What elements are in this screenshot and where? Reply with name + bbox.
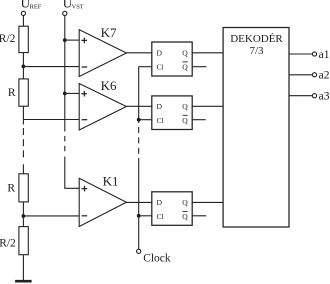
wire R/2 to R bbox=[22, 53, 24, 79]
terminal U_REF bbox=[21, 11, 25, 15]
wire clock dashed bbox=[138, 127, 140, 154]
node U_VST-K6 bbox=[63, 92, 67, 96]
svg-text:Q: Q bbox=[182, 49, 188, 58]
wire FF7 Qbar stub bbox=[192, 66, 206, 68]
decoder U1 bbox=[223, 28, 289, 228]
svg-text:D: D bbox=[157, 49, 163, 58]
node clock-FF6 bbox=[137, 118, 141, 122]
svg-text:R/2: R/2 bbox=[0, 238, 16, 250]
svg-text:K1: K1 bbox=[103, 173, 119, 188]
wire tee to K6 minus bbox=[23, 119, 79, 121]
svg-text:D: D bbox=[157, 198, 163, 207]
terminal a1 bbox=[312, 52, 316, 56]
svg-text:Q: Q bbox=[182, 102, 188, 111]
comparator K6 bbox=[79, 84, 126, 131]
terminal a2 bbox=[312, 73, 316, 77]
svg-text:K7: K7 bbox=[101, 25, 117, 40]
wire FF7 Q to decoder bbox=[192, 52, 223, 54]
svg-text:R: R bbox=[8, 87, 16, 99]
wire clock vertical upper solid bbox=[138, 67, 140, 123]
flip-flop FF1 bbox=[152, 192, 192, 226]
svg-text:DEKODÉR: DEKODÉR bbox=[230, 33, 283, 45]
wire decoder to a2 bbox=[289, 74, 312, 76]
pin minus K1 bbox=[82, 215, 88, 217]
terminal Clock bbox=[137, 249, 141, 253]
wire U_VST lower to K1 plus bbox=[65, 157, 79, 189]
wire ladder dashed bbox=[22, 128, 24, 161]
node ladder-K1 bbox=[22, 214, 26, 218]
svg-text:Q: Q bbox=[182, 63, 188, 72]
pin label Qbar FF6 bbox=[182, 115, 188, 125]
wire node to K7 plus bbox=[65, 39, 79, 41]
svg-text:D: D bbox=[157, 102, 163, 111]
resistor R upper bbox=[19, 79, 28, 106]
pin plus K1 bbox=[82, 186, 88, 192]
terminal a3 bbox=[312, 94, 316, 98]
svg-text:R: R bbox=[7, 182, 15, 194]
wire U_VST vertical solid bbox=[64, 16, 66, 127]
svg-text:a2: a2 bbox=[319, 70, 330, 82]
wire FF1 Cl to clock line bbox=[139, 215, 152, 217]
wire U_VST dashed bbox=[64, 126, 66, 153]
wire K6 out to FF6 D bbox=[126, 105, 151, 107]
svg-text:Clock: Clock bbox=[143, 253, 171, 265]
wire K1 out to FF1 D bbox=[126, 201, 151, 203]
svg-text:Q: Q bbox=[182, 198, 188, 207]
svg-text:a1: a1 bbox=[319, 49, 330, 61]
pin plus K7 bbox=[81, 38, 87, 44]
wire FF1 Q to decoder bbox=[192, 201, 223, 203]
comparator K1 bbox=[79, 178, 126, 226]
wire node to K6 plus bbox=[65, 92, 79, 94]
pin minus K7 bbox=[82, 66, 88, 68]
wire R/2 bottom to ground bbox=[22, 255, 24, 281]
pin minus K6 bbox=[82, 119, 88, 121]
resistor R/2 bottom bbox=[19, 227, 28, 255]
svg-text:Cl: Cl bbox=[157, 212, 164, 221]
node clock-FF1 bbox=[137, 214, 141, 218]
resistor R/2 top bbox=[19, 26, 28, 52]
terminal U_VST bbox=[63, 11, 67, 15]
label U_REF bbox=[21, 0, 42, 11]
svg-text:Cl: Cl bbox=[157, 116, 164, 125]
svg-text:K6: K6 bbox=[101, 78, 117, 93]
wire clock vertical lower solid bbox=[138, 158, 140, 249]
svg-text:REF: REF bbox=[30, 3, 42, 10]
svg-text:7/3: 7/3 bbox=[249, 45, 264, 57]
flip-flop FF7 bbox=[152, 42, 192, 76]
wire R to ladder tee bbox=[22, 106, 24, 124]
ground bbox=[15, 280, 32, 283]
label U_VST bbox=[63, 0, 84, 11]
flip-flop FF6 bbox=[152, 96, 192, 130]
svg-text:a3: a3 bbox=[319, 91, 330, 103]
pin plus K6 bbox=[81, 91, 87, 97]
wire FF6 Qbar stub bbox=[192, 119, 206, 121]
wire decoder to a1 bbox=[289, 53, 312, 55]
wire U_REF terminal to R/2 bbox=[22, 16, 24, 27]
svg-text:VST: VST bbox=[72, 3, 84, 10]
wire decoder to a3 bbox=[289, 95, 312, 97]
svg-text:Q: Q bbox=[182, 212, 188, 221]
wire FF7 Cl to clock line bbox=[139, 66, 152, 68]
resistor R lower bbox=[19, 174, 28, 202]
node ladder-K7 bbox=[22, 65, 26, 69]
node U_VST-K7 bbox=[63, 38, 67, 42]
wire node to K1 minus bbox=[23, 215, 79, 217]
pin label Qbar FF1 bbox=[182, 211, 188, 221]
wire node to K7 minus bbox=[23, 66, 79, 68]
wire FF1 Qbar stub bbox=[192, 215, 206, 217]
wire K7 out to FF7 D bbox=[126, 52, 151, 54]
wire R lower to R/2 bottom bbox=[22, 202, 24, 227]
svg-text:R/2: R/2 bbox=[0, 33, 16, 45]
svg-text:Cl: Cl bbox=[157, 63, 164, 72]
pin label Qbar FF7 bbox=[182, 62, 188, 72]
wire FF6 Q to decoder bbox=[192, 105, 223, 107]
comparator K7 bbox=[79, 30, 126, 77]
svg-text:Q: Q bbox=[182, 116, 188, 125]
wire ladder to R lower bbox=[22, 164, 24, 174]
wire FF6 Cl to clock line bbox=[139, 119, 152, 121]
